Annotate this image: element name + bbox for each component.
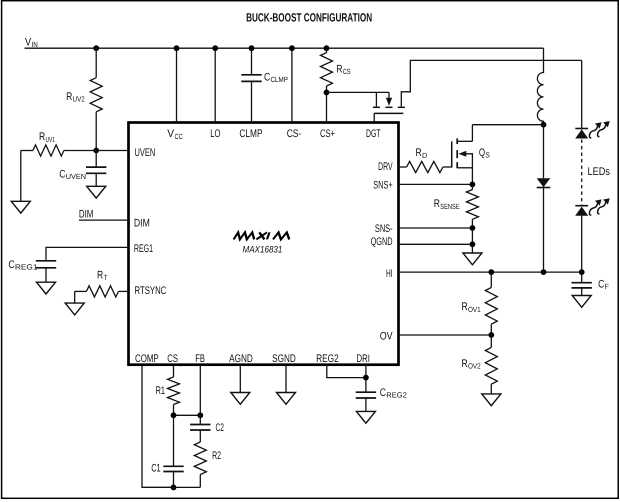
- svg-text:C: C: [8, 259, 14, 271]
- svg-text:SENSE: SENSE: [440, 202, 459, 211]
- svg-text:RTSYNC: RTSYNC: [135, 285, 167, 297]
- svg-text:QGND: QGND: [371, 236, 393, 248]
- svg-text:CC: CC: [175, 132, 184, 141]
- svg-text:UVEN: UVEN: [135, 147, 156, 159]
- svg-text:UV2: UV2: [73, 95, 85, 104]
- svg-text:R: R: [336, 64, 342, 76]
- svg-text:UVEN: UVEN: [66, 172, 86, 181]
- svg-text:OV1: OV1: [468, 305, 481, 314]
- svg-text:F: F: [605, 282, 610, 291]
- svg-text:UV1: UV1: [46, 135, 56, 144]
- svg-text:C: C: [264, 71, 270, 83]
- svg-text:IN: IN: [32, 40, 38, 49]
- svg-text:CLMP: CLMP: [271, 75, 289, 84]
- svg-text:R: R: [39, 131, 45, 143]
- svg-text:BUCK-BOOST CONFIGURATION: BUCK-BOOST CONFIGURATION: [246, 11, 372, 25]
- svg-text:FB: FB: [195, 353, 205, 365]
- svg-text:AGND: AGND: [229, 353, 253, 365]
- svg-text:REG2: REG2: [386, 391, 407, 400]
- svg-text:DGT: DGT: [366, 128, 381, 140]
- svg-text:C1: C1: [151, 462, 161, 474]
- svg-text:R: R: [462, 358, 468, 370]
- svg-text:CS: CS: [167, 353, 178, 365]
- svg-text:HI: HI: [386, 268, 393, 280]
- svg-text:R: R: [416, 147, 422, 159]
- svg-text:R1: R1: [156, 385, 165, 397]
- svg-text:R: R: [66, 91, 72, 103]
- svg-text:C: C: [598, 279, 604, 291]
- svg-text:DRI: DRI: [357, 353, 370, 365]
- svg-text:C2: C2: [216, 422, 225, 434]
- svg-text:MAX16831: MAX16831: [243, 245, 283, 256]
- svg-text:COMP: COMP: [135, 353, 159, 365]
- svg-text:OV: OV: [380, 331, 393, 343]
- svg-text:LO: LO: [210, 128, 220, 140]
- svg-text:R: R: [462, 301, 468, 313]
- svg-text:CS-: CS-: [287, 128, 302, 140]
- svg-text:CS+: CS+: [320, 128, 335, 140]
- svg-text:SNS-: SNS-: [375, 223, 393, 235]
- svg-text:C: C: [59, 169, 65, 181]
- svg-text:R2: R2: [212, 450, 221, 462]
- svg-text:R: R: [434, 198, 440, 210]
- svg-text:OV2: OV2: [468, 362, 481, 371]
- svg-text:DIM: DIM: [79, 208, 94, 220]
- svg-text:R: R: [97, 270, 103, 282]
- svg-text:T: T: [104, 273, 108, 282]
- svg-text:DIM: DIM: [134, 217, 150, 229]
- svg-text:SNS+: SNS+: [373, 179, 392, 191]
- svg-text:LEDs: LEDs: [588, 166, 611, 178]
- svg-text:CS: CS: [343, 67, 351, 76]
- svg-text:C: C: [380, 387, 386, 399]
- svg-text:REG2: REG2: [316, 353, 339, 365]
- svg-text:REG1: REG1: [15, 263, 38, 272]
- svg-text:DRV: DRV: [378, 161, 393, 173]
- svg-text:CLMP: CLMP: [239, 128, 262, 140]
- svg-text:S: S: [485, 150, 490, 159]
- svg-text:REG1: REG1: [134, 243, 153, 255]
- svg-text:D: D: [422, 151, 428, 160]
- svg-text:SGND: SGND: [272, 353, 296, 365]
